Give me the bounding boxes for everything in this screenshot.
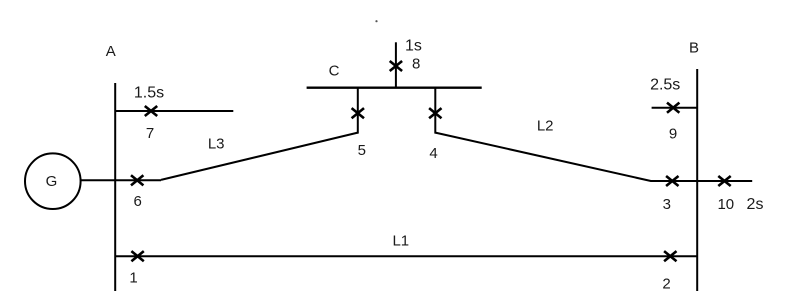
breaker 5 [352, 108, 364, 118]
breaker 7 [145, 106, 157, 116]
bus C [307, 87, 482, 89]
breaker 1 [131, 251, 143, 261]
breaker 2 [664, 251, 676, 261]
svg-text:10: 10 [717, 196, 734, 213]
breaker 8 [390, 61, 402, 71]
breaker 4 [429, 108, 441, 118]
wire drop bus C to L3 [357, 88, 359, 134]
wire L3 [161, 133, 358, 180]
svg-text:9: 9 [669, 125, 677, 142]
wire drop bus C to L2 [434, 88, 436, 134]
wire riser breaker 8 [395, 42, 397, 87]
wire feeder through breakers 3 and 10 [651, 180, 753, 182]
svg-text:5: 5 [358, 142, 366, 159]
breaker 10 [718, 176, 730, 186]
svg-text:1s: 1s [405, 37, 422, 54]
svg-text:8: 8 [412, 55, 420, 72]
breaker 6 [131, 175, 143, 185]
wire generator lead [80, 179, 161, 181]
svg-text:2: 2 [662, 276, 670, 293]
svg-text:7: 7 [146, 125, 154, 142]
svg-text:A: A [106, 43, 116, 60]
svg-text:L1: L1 [392, 233, 409, 250]
svg-text:L2: L2 [537, 118, 554, 135]
svg-text:1.5s: 1.5s [134, 85, 164, 102]
svg-text:1: 1 [129, 270, 137, 287]
breaker 9 [667, 103, 679, 113]
svg-text:4: 4 [429, 145, 437, 162]
svg-text:2.5s: 2.5s [650, 77, 680, 94]
svg-text:6: 6 [134, 193, 142, 210]
wire L1 [115, 255, 697, 257]
svg-text:L3: L3 [208, 136, 225, 153]
svg-text:2s: 2s [747, 196, 764, 213]
bus B [696, 69, 698, 291]
bus A [114, 83, 116, 291]
svg-text:B: B [689, 39, 699, 56]
wire breaker 7 stub [115, 110, 233, 112]
wire breaker 9 stub [652, 107, 698, 109]
svg-text:G: G [46, 173, 58, 190]
svg-text:C: C [329, 62, 340, 79]
wire L2 [435, 133, 651, 181]
generator G [25, 153, 81, 209]
breaker 3 [666, 176, 678, 186]
svg-text:3: 3 [663, 196, 671, 213]
